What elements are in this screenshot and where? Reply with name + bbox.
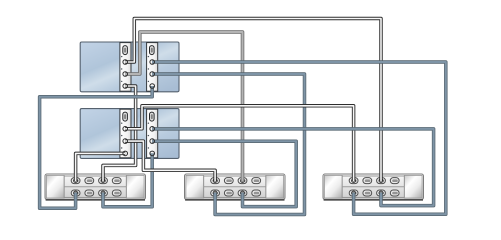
port S2-IOMB-P1: [224, 178, 233, 184]
port S3-IOMB-P3: [390, 178, 399, 184]
indicator LEDs on HBA U4: [148, 123, 149, 149]
disk shelf S1 chassis: [45, 174, 146, 200]
port S3-IOMB-P1: [363, 178, 372, 184]
cable C1-HBA2-P3 to S1-IOMA-P0 (slate): [40, 86, 153, 208]
HBA connector ring C1-HBA1-P2: [123, 72, 128, 77]
port S1-IOMA-P1: [85, 190, 94, 196]
HBA U3 (controller C2 slot 1): [120, 109, 131, 158]
port S3-IOMA-P0 (bottom row): [349, 190, 358, 196]
shelf connector plug S2-IOMA-P2: [241, 191, 245, 195]
indicator LEDs on HBA U1: [121, 56, 122, 82]
indicator LEDs on HBA U3: [121, 123, 122, 149]
shelf connector plug S3-IOMA-P0: [352, 191, 356, 195]
HBA connector ring C2-HBA2-P1: [150, 127, 155, 132]
port S2-IOMA-P2: [238, 190, 247, 196]
port S1-IOMB-P2: [99, 178, 108, 184]
HBA connector ring C2-HBA1-P3: [123, 151, 128, 156]
cable C1-HBA2-P1 to S3-IOMA-P0 (slate): [152, 62, 446, 214]
HBA U4 (controller C2 slot 2): [147, 109, 158, 158]
controller C2 chassis: [80, 109, 179, 159]
port S2-IOMB-P0 (top row): [211, 178, 220, 184]
port S2-IOMA-P0 (bottom row): [211, 190, 220, 196]
port S1-IOMA-P3: [112, 190, 121, 196]
shelf connector plug S1-IOMA-P2: [101, 191, 105, 195]
HBA connector ring C1-HBA2-P3: [150, 84, 155, 89]
HBA connector ring C2-HBA1-P1: [123, 127, 128, 132]
HBA connector ring C2-HBA2-P3: [150, 151, 155, 156]
shelf connector plug S2-IOMB-P0: [213, 179, 217, 183]
port S3-IOMA-P1: [363, 190, 372, 196]
port S3-IOMA-P3: [390, 190, 399, 196]
HBA connector ring C2-HBA1-P2: [123, 139, 128, 144]
cable C1-HBA1-P3 to S1-IOMB-P2 (white): [103, 86, 136, 181]
port S1-IOMB-P0 (top row): [71, 178, 80, 184]
port S1-IOMB-P3: [112, 178, 121, 184]
cable C1-HBA2-P2 to S2-IOMA-P0 (slate): [152, 74, 304, 215]
port S1-IOMB-P1: [85, 178, 94, 184]
shelf connector plug S1-IOMB-P0: [74, 179, 78, 183]
cable C1-HBA1-P2 to S2-IOMB-P2 (gray): [125, 32, 242, 181]
cable C1-HBA1-P1 to S3-IOMB-P2 (white): [125, 19, 381, 182]
port S3-IOMB-P2: [377, 178, 386, 184]
port S3-IOMA-P2: [377, 190, 386, 196]
cable C2-HBA2-P1 to S3-IOMA-P2 (slate): [152, 129, 433, 206]
port C1-HBA2-P0: [150, 46, 155, 55]
shelf connector plug S3-IOMA-P2: [379, 191, 383, 195]
cable C2-HBA1-P3 to S1-IOMB-P0 (white): [76, 153, 126, 181]
controller C1 chassis: [80, 42, 179, 92]
port S1-IOMA-P0 (bottom row): [71, 190, 80, 196]
port S2-IOMA-P3: [252, 190, 261, 196]
port C2-HBA1-P0: [123, 112, 128, 121]
port S3-IOMB-P0 (top row): [349, 178, 358, 184]
port S2-IOMA-P1: [224, 190, 233, 196]
HBA connector ring C1-HBA2-P1: [150, 60, 155, 65]
HBA connector ring C1-HBA1-P1: [123, 60, 128, 65]
HBA connector ring C1-HBA1-P3: [123, 84, 128, 89]
shelf connector plug S2-IOMA-P0: [213, 191, 217, 195]
shelf connector plug S3-IOMB-P0: [352, 179, 356, 183]
port S2-IOMB-P2: [238, 178, 247, 184]
port C2-HBA2-P0: [150, 112, 155, 121]
shelf connector plug S1-IOMA-P0: [74, 191, 78, 195]
HBA U1 (controller C1 slot 1): [120, 43, 131, 92]
HBA connector ring C2-HBA2-P2: [150, 139, 155, 144]
port S2-IOMB-P3: [252, 178, 261, 184]
HBA U2 (controller C1 slot 2): [147, 43, 158, 92]
shelf connector plug S2-IOMB-P2: [241, 179, 245, 183]
disk shelf S3 chassis: [323, 174, 424, 200]
port S1-IOMA-P2: [99, 190, 108, 196]
cable C2-HBA1-P2 to S2-IOMB-P0 (white): [125, 141, 215, 181]
cable C2-HBA2-P2 to S2-IOMA-P2 (slate): [152, 141, 296, 206]
cable C2-HBA2-P3 to S1-IOMA-P2 (slate): [103, 153, 152, 206]
indicator LEDs on HBA U2: [148, 56, 149, 82]
disk shelf S2 chassis: [185, 174, 286, 200]
port C1-HBA1-P0: [123, 46, 128, 55]
shelf connector plug S1-IOMB-P2: [101, 179, 105, 183]
shelf connector plug S3-IOMB-P2: [379, 179, 383, 183]
HBA connector ring C1-HBA2-P2: [150, 72, 155, 77]
cable C2-HBA1-P1 to S3-IOMB-P0 (white): [125, 106, 353, 181]
